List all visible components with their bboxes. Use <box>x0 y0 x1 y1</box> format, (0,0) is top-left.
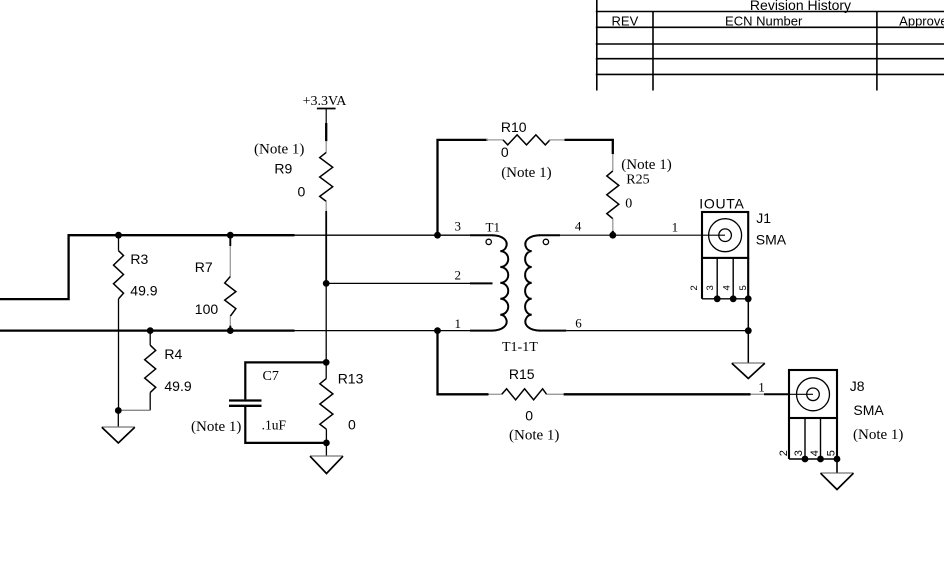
svg-text:4: 4 <box>809 450 821 456</box>
transformer T1 left winding <box>492 235 508 330</box>
J8 pin 4 line <box>820 418 822 459</box>
svg-text:R10: R10 <box>501 119 527 135</box>
svg-text:2: 2 <box>455 268 462 283</box>
wire: into J8 center <box>789 393 813 395</box>
svg-text:0: 0 <box>348 416 356 432</box>
wire: thin net to T1 pin 1 <box>295 330 471 332</box>
J1 pins connector line <box>702 298 748 300</box>
svg-text:5: 5 <box>738 285 749 290</box>
svg-text:0: 0 <box>625 196 632 211</box>
wire: R15 to J8 pin 1 <box>564 393 751 395</box>
svg-text:4: 4 <box>721 285 732 290</box>
svg-text:2: 2 <box>689 285 700 290</box>
junction dot node (R7 top) <box>227 232 234 239</box>
junction dot node (R3/R4 ground) <box>115 407 122 414</box>
svg-text:5: 5 <box>826 450 838 456</box>
R9 zigzag body <box>320 152 333 201</box>
T1 pin stub 6 <box>539 330 566 332</box>
connector J8 <box>778 370 903 459</box>
wire: J1 ground leg <box>747 299 749 363</box>
svg-text:0: 0 <box>501 144 509 160</box>
svg-text:3: 3 <box>455 219 462 234</box>
C7 bottom plate <box>229 405 262 407</box>
svg-text:(Note 1): (Note 1) <box>254 141 304 157</box>
svg-text:4: 4 <box>575 219 582 234</box>
C7 top plate <box>229 399 262 401</box>
junction dot node (J1 ground / pin6 wire) <box>745 327 752 334</box>
junction dot node A (R3 top) <box>115 232 122 239</box>
T1 polarity dot right <box>543 239 548 244</box>
svg-text:1: 1 <box>455 316 462 331</box>
resistor R4 <box>118 331 192 411</box>
svg-text:R7: R7 <box>195 259 213 275</box>
svg-text:T1-1T: T1-1T <box>502 340 538 355</box>
R15 zigzag body <box>502 389 547 400</box>
ground (J1) <box>732 362 765 364</box>
svg-text:IOUTA: IOUTA <box>699 195 744 211</box>
J8 body box <box>789 370 837 418</box>
T1 pin stub 3 <box>470 234 493 236</box>
J1 inner circle <box>719 229 732 242</box>
R13 zigzag body <box>320 378 333 429</box>
R4 zigzag body <box>145 345 156 392</box>
svg-text:C7: C7 <box>263 369 279 384</box>
revision history table <box>596 0 944 91</box>
T1 pin stub 4 <box>539 234 560 236</box>
junction dot J8 pin3 <box>802 456 809 463</box>
svg-text:(Note 1): (Note 1) <box>191 419 241 435</box>
resistor R3 <box>114 235 158 410</box>
svg-text:(Note 1): (Note 1) <box>501 165 551 181</box>
wire: T1 pin4 to J1 pin1 <box>560 234 725 236</box>
wire: thin net to T1 pin 3 <box>295 234 471 236</box>
R7 zigzag body <box>225 277 236 317</box>
junction dot node (C7/R13 top) <box>323 359 330 366</box>
J1 pin 4 line <box>732 258 734 299</box>
junction dot J8 pin5 <box>834 456 841 463</box>
svg-text:T1: T1 <box>486 220 500 235</box>
wire: R15 left leg <box>438 331 489 395</box>
svg-text:(Note 1): (Note 1) <box>509 428 559 444</box>
svg-text:SMA: SMA <box>756 231 787 247</box>
T1 polarity dot left <box>486 239 491 244</box>
junction dot node (center tap) <box>323 280 330 287</box>
resistor R9 <box>254 141 333 211</box>
svg-text:2: 2 <box>778 450 790 456</box>
svg-text:R13: R13 <box>338 371 364 387</box>
svg-text:49.9: 49.9 <box>130 282 157 298</box>
wire: left input lower <box>0 329 295 331</box>
junction dot node (R7 bottom) <box>227 327 234 334</box>
wire: R9 bottom to center tap and C7/R13 junction <box>325 211 327 283</box>
svg-text:49.9: 49.9 <box>164 378 191 394</box>
resistor R15 <box>489 366 564 444</box>
resistor R25 <box>607 154 672 235</box>
svg-text:R25: R25 <box>626 173 649 188</box>
J8 outer circle <box>797 378 830 411</box>
junction dot J1 pin3 <box>714 295 721 302</box>
resistor R7 <box>195 235 236 330</box>
T1 pin stub 2 <box>470 282 493 284</box>
J8 pin 5 line <box>836 418 838 459</box>
svg-text:SMA: SMA <box>853 402 884 418</box>
wire: J8 ground stub <box>836 459 838 473</box>
svg-text:R3: R3 <box>130 251 148 267</box>
J1 pin 3 line <box>716 258 718 299</box>
svg-text:Approved: Approved <box>899 14 944 29</box>
wire: center tap net to T1 pin 2 <box>326 282 470 284</box>
junction dot node (R4 top) <box>147 327 154 334</box>
svg-text:+3.3VA: +3.3VA <box>303 94 348 109</box>
svg-text:(Note 1): (Note 1) <box>621 157 671 173</box>
wire: J8 pin 1 stub <box>764 393 789 395</box>
J1 outer circle <box>709 219 742 252</box>
wire: T1 pin6 to J1 ground <box>566 330 748 332</box>
wire: gray segment at J8 pin 1 <box>751 393 765 395</box>
svg-text:1: 1 <box>758 379 765 394</box>
svg-text:REV: REV <box>612 14 639 29</box>
junction dot J1 pin4 <box>730 295 737 302</box>
svg-text:R15: R15 <box>509 366 535 382</box>
resistor R13 <box>320 362 364 443</box>
resistor R10 <box>486 119 565 181</box>
junction dot node (R15 leg / pin1 wire) <box>434 327 441 334</box>
J1 body box <box>702 212 748 258</box>
junction dot J1 pin5 <box>745 295 752 302</box>
R25 zigzag body <box>607 171 619 219</box>
ground (J8) <box>821 472 854 474</box>
svg-text:3: 3 <box>793 450 805 456</box>
svg-text:J1: J1 <box>756 210 771 226</box>
junction dot node (R25 bottom / pin4 wire) <box>609 232 616 239</box>
T1 pin stub 1 <box>470 330 493 332</box>
svg-text:0: 0 <box>298 184 306 200</box>
svg-text:Revision History: Revision History <box>750 0 851 13</box>
transformer T1 right winding <box>525 235 540 330</box>
J8 pin 3 line <box>804 418 806 459</box>
power symbol +3.3VA <box>303 94 348 141</box>
svg-text:ECN Number: ECN Number <box>725 14 803 29</box>
J1 pin 5 line <box>747 258 749 299</box>
svg-text:6: 6 <box>575 315 582 330</box>
J1 pin 2 line <box>701 258 703 299</box>
junction dot node (C7/R13 bottom) <box>323 440 330 447</box>
junction dot J8 pin4 <box>817 456 824 463</box>
R10 zigzag body <box>503 135 550 145</box>
ground (R13) <box>310 443 343 474</box>
svg-text:3: 3 <box>705 285 716 290</box>
capacitor C7 <box>191 362 326 443</box>
junction dot node (R10 leg / pin3 wire) <box>434 232 441 239</box>
svg-text:100: 100 <box>195 301 219 317</box>
svg-text:J8: J8 <box>850 378 865 394</box>
R3 zigzag body <box>114 251 124 299</box>
J8 pin 2 line <box>788 418 790 459</box>
connector J1 <box>689 195 787 298</box>
svg-text:(Note 1): (Note 1) <box>853 427 903 443</box>
svg-text:R4: R4 <box>164 346 182 362</box>
wire: left input upper (stepped) <box>0 235 295 299</box>
svg-text:R9: R9 <box>274 160 292 176</box>
J8 pins connector line <box>789 458 837 460</box>
J8 inner circle <box>807 388 820 401</box>
ground (R3/R4) <box>102 411 135 444</box>
wire: R10 left leg <box>438 140 488 235</box>
svg-text:1: 1 <box>672 220 679 235</box>
wire: R10 right leg <box>565 140 613 154</box>
svg-text:.1uF: .1uF <box>262 417 287 432</box>
svg-text:0: 0 <box>525 408 533 424</box>
